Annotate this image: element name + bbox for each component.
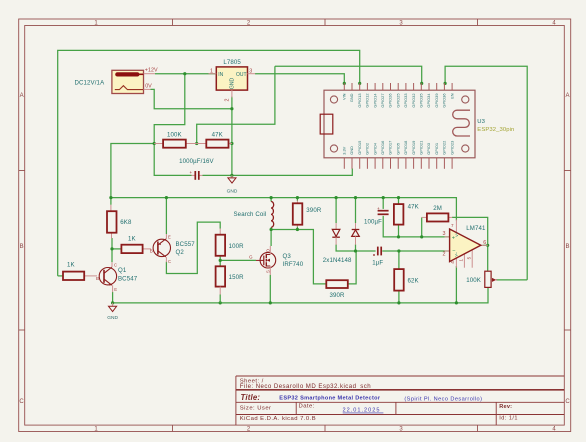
- svg-text:390R: 390R: [306, 207, 322, 214]
- resistor 150R: [216, 266, 245, 303]
- svg-text:GPIO34: GPIO34: [426, 93, 431, 108]
- wire Q2 collector to divider: [166, 222, 220, 273]
- svg-text:BC557: BC557: [176, 241, 196, 248]
- svg-text:B: B: [20, 244, 24, 250]
- svg-text:+: +: [377, 206, 380, 211]
- svg-text:GPIO33: GPIO33: [403, 94, 408, 108]
- svg-text:BC547: BC547: [118, 276, 138, 283]
- wire 0V to gnd node: [151, 89, 232, 108]
- wire opamp V- down: [455, 266, 457, 303]
- potentiometer 100K: [466, 271, 497, 287]
- resistor 1K base Q1: [63, 262, 97, 280]
- svg-text:Search Coil: Search Coil: [234, 211, 267, 218]
- svg-text:62K: 62K: [408, 278, 419, 285]
- svg-text:100K: 100K: [167, 131, 182, 138]
- wire 2M left down: [421, 217, 423, 237]
- wire 62K top: [398, 251, 400, 269]
- svg-text:V+: V+: [455, 231, 459, 237]
- svg-text:390R: 390R: [329, 292, 345, 299]
- resistor 390R horizontal: [326, 280, 348, 299]
- svg-text:VIN: VIN: [342, 93, 347, 100]
- capacitor 100uF: [364, 206, 389, 226]
- wire +12V to regulator: [155, 73, 216, 75]
- wire 62K bottom: [398, 291, 400, 303]
- svg-text:3.3V: 3.3V: [342, 146, 347, 154]
- svg-text:+12V: +12V: [145, 68, 158, 74]
- svg-text:U3: U3: [477, 119, 485, 125]
- wire diode D1 top: [335, 198, 337, 223]
- svg-text:100K: 100K: [466, 277, 481, 284]
- svg-text:C: C: [19, 399, 24, 405]
- svg-text:6: 6: [483, 240, 486, 246]
- resistor 1K base Q2: [121, 236, 151, 253]
- svg-text:G: G: [249, 254, 253, 259]
- svg-text:Id: 1/1: Id: 1/1: [499, 415, 518, 421]
- svg-text:6K8: 6K8: [120, 219, 132, 226]
- svg-text:47K: 47K: [212, 131, 223, 138]
- resistor 2M: [422, 205, 453, 222]
- svg-text:2x1N4148: 2x1N4148: [323, 257, 352, 264]
- wire 1K to Q2 base: [112, 248, 121, 250]
- svg-text:GPIO15: GPIO15: [357, 141, 362, 155]
- svg-text:E: E: [168, 234, 171, 239]
- svg-text:Rev:: Rev:: [499, 404, 512, 410]
- svg-text:GPIO16: GPIO16: [380, 141, 385, 155]
- svg-text:ESP32_30pin: ESP32_30pin: [477, 127, 514, 133]
- svg-text:C: C: [168, 259, 171, 264]
- wire mosfet source to rail: [269, 275, 271, 303]
- svg-text:1K: 1K: [128, 236, 136, 243]
- svg-text:E: E: [114, 287, 117, 292]
- svg-text:Q1: Q1: [118, 267, 127, 274]
- svg-text:GPIO36: GPIO36: [442, 94, 447, 108]
- svg-text:C: C: [114, 263, 117, 268]
- capacitor 1000uF/16V: [179, 158, 214, 180]
- wire diode D2 bottom: [355, 245, 357, 252]
- svg-text:C: C: [565, 399, 570, 405]
- wire 12V divider feed: [154, 74, 185, 144]
- svg-text:KiCad E.D.A. kicad 7.0.B: KiCad E.D.A. kicad 7.0.B: [240, 416, 316, 422]
- ground symbol GND2: [107, 303, 118, 321]
- svg-text:5: 5: [466, 256, 471, 259]
- svg-text:0V: 0V: [145, 84, 152, 90]
- svg-text:Date:: Date:: [299, 404, 315, 410]
- wire left rail to 1K: [58, 275, 63, 277]
- wire Q1 emitter to gnd: [112, 292, 114, 303]
- svg-text:EN: EN: [449, 93, 454, 99]
- diode D1 1N4148: [332, 223, 340, 245]
- wire 100K left: [111, 144, 154, 198]
- wire 100R 150R junction to gate: [219, 256, 221, 266]
- wire 6K8 bottom to Q1 collector: [111, 238, 113, 262]
- wire regulator gnd down: [231, 97, 233, 176]
- svg-text:GND: GND: [349, 93, 354, 102]
- capacitor 1uF: [372, 247, 383, 267]
- resistor 100K: [154, 131, 197, 147]
- svg-text:+: +: [190, 170, 193, 175]
- resistor 62K: [394, 269, 419, 291]
- svg-text:GPIO1: GPIO1: [434, 143, 439, 155]
- svg-text:GPIO14: GPIO14: [372, 93, 377, 108]
- ESP32 top pin names: [342, 93, 455, 108]
- svg-text:GPIO39: GPIO39: [434, 94, 439, 108]
- svg-text:GPIO3: GPIO3: [426, 143, 431, 155]
- wire gate: [220, 259, 256, 261]
- wire diode bottoms to opamp: [336, 245, 376, 252]
- diode D2 1N4148: [323, 223, 360, 264]
- svg-text:GPIO21: GPIO21: [419, 141, 424, 155]
- svg-text:S: S: [266, 270, 271, 273]
- resistor 390R vertical: [293, 201, 322, 227]
- svg-text:2: 2: [224, 99, 230, 102]
- svg-text:GND: GND: [227, 188, 238, 194]
- svg-text:B: B: [96, 276, 99, 281]
- svg-text:GPIO32: GPIO32: [411, 94, 416, 108]
- wire bottom rail: [113, 287, 488, 303]
- svg-text:GND: GND: [107, 315, 118, 321]
- svg-text:GPIO12: GPIO12: [365, 94, 370, 108]
- svg-text:GPIO35: GPIO35: [419, 94, 424, 108]
- svg-text:GPIO17: GPIO17: [388, 141, 393, 155]
- transistor Q3 IRF740: [249, 246, 304, 275]
- svg-text:GPIO25: GPIO25: [395, 94, 400, 108]
- title block: [236, 376, 564, 425]
- resistor 100R: [216, 229, 245, 256]
- svg-text:Size: User: Size: User: [240, 406, 272, 412]
- svg-text:1µF: 1µF: [372, 260, 383, 267]
- svg-text:1: 1: [210, 68, 213, 74]
- svg-text:2M: 2M: [433, 205, 442, 212]
- svg-text:GND: GND: [349, 146, 354, 155]
- svg-text:Q3: Q3: [283, 253, 292, 260]
- svg-text:GPIO13: GPIO13: [357, 94, 362, 108]
- svg-text:B: B: [150, 249, 153, 254]
- wire 47K2 top: [398, 198, 400, 205]
- wire 6K8 top: [110, 198, 112, 205]
- wire 390R vertical top: [296, 198, 298, 201]
- svg-text:GPIO5: GPIO5: [395, 143, 400, 155]
- svg-text:GPIO23: GPIO23: [449, 141, 454, 155]
- wire 2M right feedback: [452, 217, 488, 271]
- svg-text:LM741: LM741: [466, 225, 486, 232]
- svg-text:1000µF/16V: 1000µF/16V: [179, 158, 214, 165]
- svg-text:1K: 1K: [67, 262, 75, 269]
- wire pot wiper: [497, 279, 528, 281]
- svg-text:(Spirit Pl. Neco Desarrollo): (Spirit Pl. Neco Desarrollo): [404, 397, 482, 403]
- wire 5V out to ESP32 VIN: [255, 74, 344, 84]
- wire cap 1000uF left: [154, 144, 191, 176]
- DC source BT1 DC12V/1A: [75, 68, 158, 94]
- resistor 47K: [197, 131, 232, 147]
- svg-text:150R: 150R: [229, 274, 245, 281]
- svg-text:GPIO2: GPIO2: [365, 143, 370, 155]
- transistor Q1 BC547: [96, 262, 138, 292]
- svg-text:3: 3: [443, 231, 446, 237]
- wire diode D2 top: [355, 198, 357, 223]
- svg-text:1: 1: [458, 259, 463, 262]
- op-amp U1 LM741: [443, 220, 488, 268]
- svg-text:A: A: [20, 93, 24, 99]
- wire mid rail: [111, 198, 457, 221]
- svg-text:IN: IN: [218, 72, 223, 78]
- wire ESP32 GPIO35: [275, 66, 422, 83]
- svg-text:GPIO19: GPIO19: [411, 141, 416, 155]
- svg-text:ESP32 Smartphone Metal Detecto: ESP32 Smartphone Metal Detector: [279, 395, 381, 401]
- wire divider mid tap: [197, 66, 275, 143]
- resistor 6K8: [107, 205, 132, 239]
- svg-text:47K: 47K: [408, 204, 419, 211]
- svg-text:3: 3: [249, 68, 252, 74]
- svg-text:L7805: L7805: [223, 59, 241, 66]
- wire gnd rail to ESP32: [203, 169, 353, 176]
- regulator U2 L7805: [209, 59, 256, 101]
- module U3 ESP32_30pin: [320, 90, 514, 158]
- svg-text:B: B: [565, 244, 569, 250]
- svg-text:V−: V−: [455, 251, 459, 257]
- svg-text:GND: GND: [230, 78, 236, 90]
- svg-text:A: A: [565, 93, 569, 99]
- svg-text:D: D: [266, 249, 271, 252]
- wire top rail GND bus: [58, 50, 360, 276]
- svg-text:Title:: Title:: [241, 393, 261, 402]
- wire pin3 opamp: [399, 236, 450, 238]
- svg-text:IRF740: IRF740: [283, 261, 304, 268]
- wire 100uF bottom: [383, 216, 398, 237]
- wire 47K2 bottom: [398, 225, 400, 237]
- svg-text:Q2: Q2: [176, 249, 185, 256]
- svg-text:100R: 100R: [229, 243, 245, 250]
- wire 100uF top: [382, 198, 384, 209]
- svg-text:OUT: OUT: [236, 72, 247, 78]
- wire ESP32 GPIO36 right rail: [445, 66, 527, 280]
- wire coil bottom node: [270, 227, 272, 246]
- wire 390R vertical bottom: [296, 227, 298, 230]
- wire 47K right to gnd: [229, 143, 232, 145]
- svg-text:GPIO18: GPIO18: [403, 141, 408, 155]
- resistor 47K vertical: [394, 204, 419, 225]
- inductor L1 Search Coil: [234, 202, 274, 228]
- svg-text:GPIO27: GPIO27: [380, 94, 385, 108]
- svg-text:DC12V/1A: DC12V/1A: [75, 80, 106, 87]
- ESP32 bottom pins: [344, 158, 452, 169]
- svg-text:GPIO26: GPIO26: [388, 94, 393, 108]
- svg-text:7: 7: [451, 223, 454, 228]
- wire 1uF right to pin2: [382, 250, 449, 252]
- svg-text:100µF: 100µF: [364, 218, 382, 225]
- transistor Q2 BC557: [150, 234, 195, 264]
- svg-text:File: Neco Desarollo MD Esp32.: File: Neco Desarollo MD Esp32.kicad_sch: [240, 383, 371, 390]
- wire opamp out: [483, 244, 488, 246]
- ground symbol GND1: [227, 175, 238, 194]
- ESP32 top pins: [344, 83, 452, 90]
- wire coil top: [270, 198, 272, 202]
- svg-text:GPIO4: GPIO4: [372, 142, 377, 155]
- wire 390R2 right up: [348, 251, 356, 284]
- wire Q2 emitter up: [165, 198, 167, 234]
- svg-text:4: 4: [450, 261, 455, 264]
- wire coil to 390R2: [271, 230, 326, 284]
- ESP32 bottom pin names: [342, 141, 455, 155]
- svg-text:GPIO22: GPIO22: [442, 141, 447, 155]
- svg-text:2: 2: [443, 251, 446, 257]
